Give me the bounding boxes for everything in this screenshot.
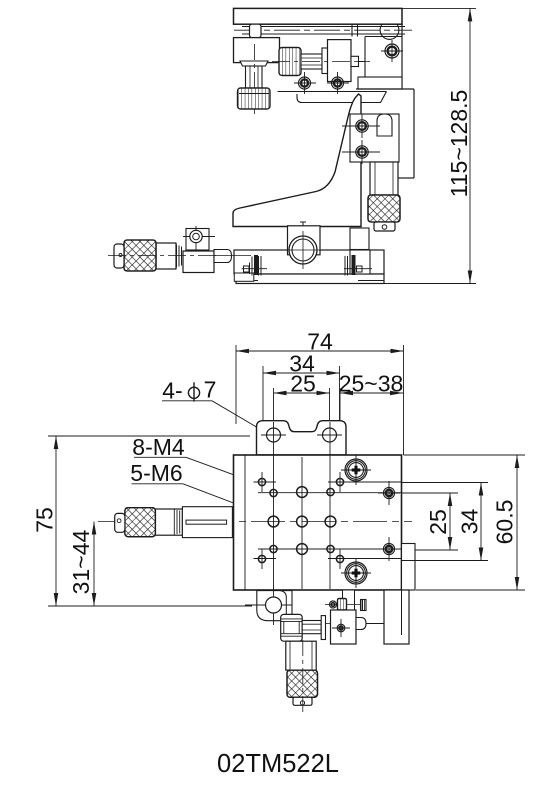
svg-text:25: 25 [425,509,451,535]
svg-text:8-M4: 8-M4 [132,434,185,460]
svg-text:25: 25 [290,370,316,396]
svg-text:115~128.5: 115~128.5 [446,90,472,198]
svg-text:60.5: 60.5 [492,500,518,545]
svg-text:4-: 4- [162,378,182,404]
svg-text:02TM522L: 02TM522L [217,750,339,778]
svg-text:75: 75 [32,507,58,533]
svg-text:25~38: 25~38 [339,370,404,396]
svg-text:5-M6: 5-M6 [130,460,182,486]
svg-text:7: 7 [204,377,217,403]
svg-text:34: 34 [457,509,483,535]
svg-text:31~44: 31~44 [68,529,94,594]
